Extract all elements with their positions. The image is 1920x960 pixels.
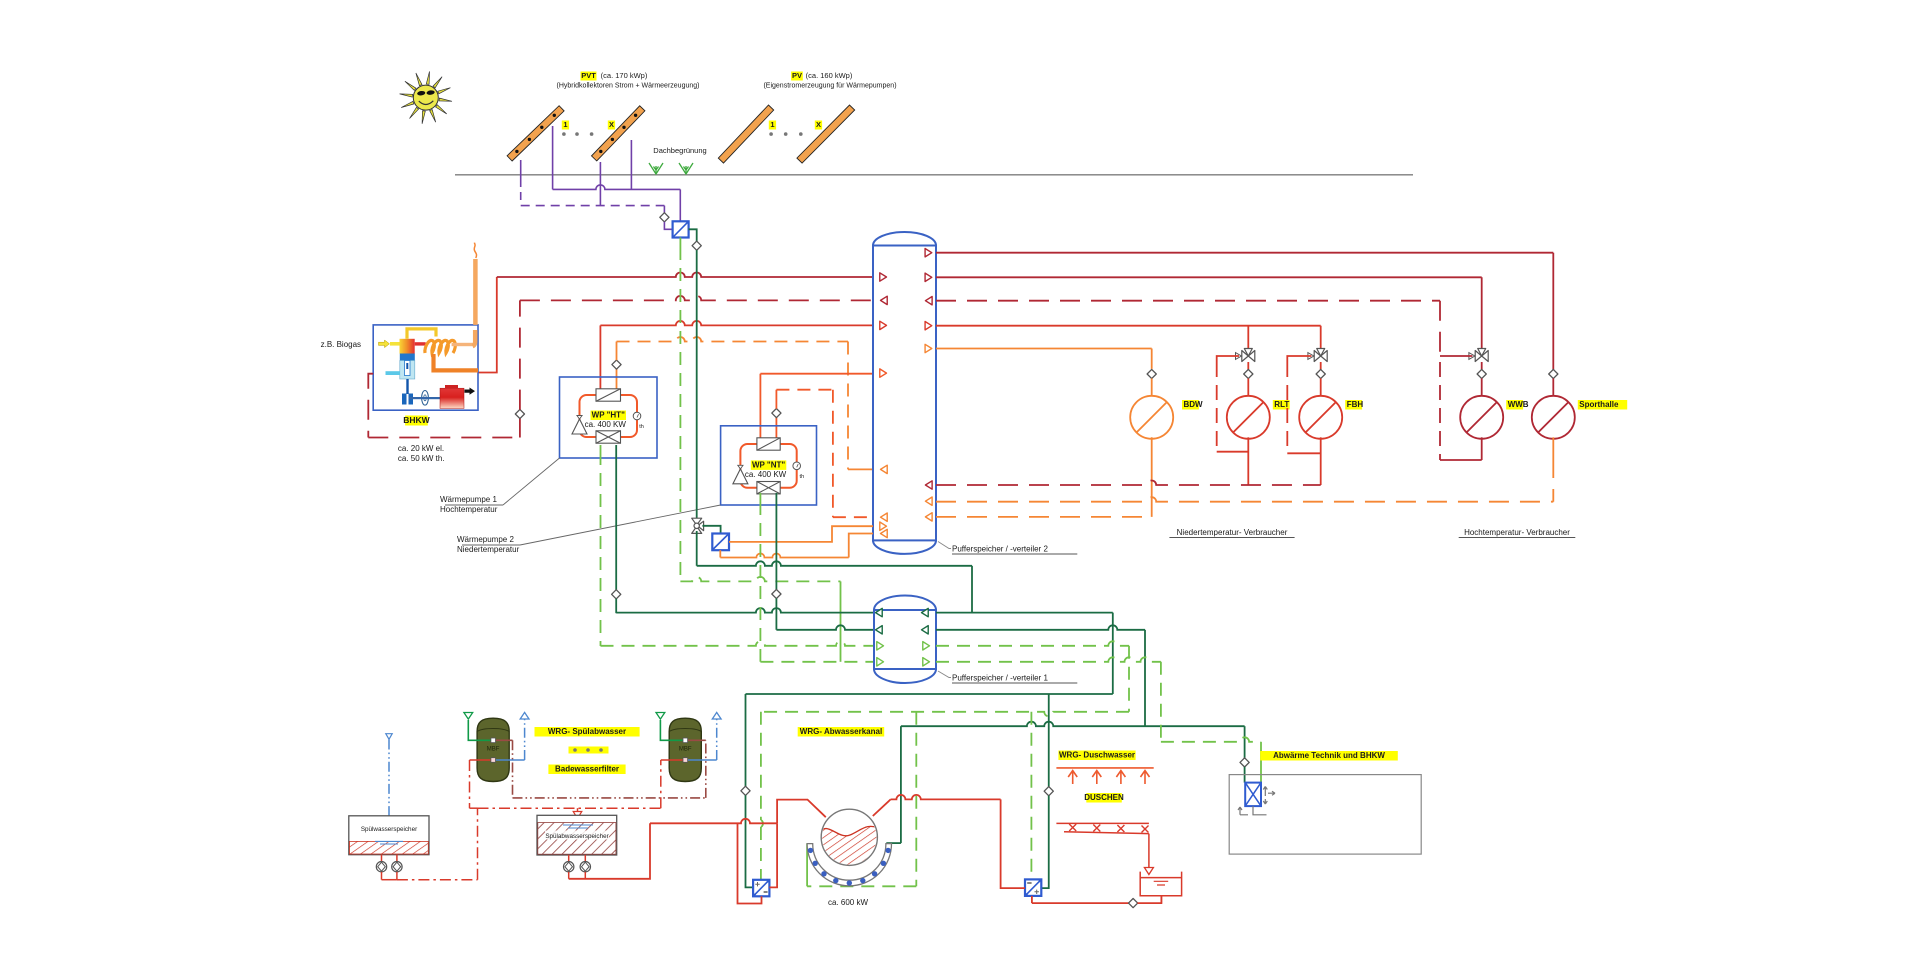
svg-text:X: X bbox=[609, 120, 614, 129]
consumer BDW bbox=[1147, 369, 1156, 378]
heat exchanger PVT (blue square) bbox=[673, 221, 689, 237]
wire consumer return dashed (dark red 300) bbox=[936, 300, 1440, 302]
wire light green 662 to tank1 bbox=[760, 661, 874, 663]
svg-text:Hochtemperatur- Verbraucher: Hochtemperatur- Verbraucher bbox=[1464, 528, 1570, 537]
svg-text:ca. 400 KW: ca. 400 KW bbox=[745, 470, 787, 479]
svg-text:PVT: PVT bbox=[581, 71, 596, 80]
sewer HX trough dots bbox=[808, 848, 813, 853]
wire consumer supply top (dark red 253) bbox=[936, 252, 1553, 254]
wire WP HT evaporator out dark green bbox=[615, 445, 617, 590]
svg-text:BDW: BDW bbox=[1184, 400, 1204, 409]
svg-text:ca. 20 kW el.: ca. 20 kW el. bbox=[398, 444, 444, 453]
svg-text:1: 1 bbox=[770, 120, 774, 129]
wire red drop to left HX bottom loop bbox=[738, 823, 762, 903]
wire light green 712 left bbox=[761, 712, 1129, 717]
BHKW box bbox=[373, 325, 478, 410]
BHKW flame squiggle bbox=[474, 243, 476, 258]
svg-text:RLT: RLT bbox=[1274, 400, 1289, 409]
drain drop to collection tank bbox=[1148, 834, 1150, 869]
wire dark green 726 to Abwaerme bbox=[901, 722, 1245, 727]
wire WP HT condenser supply (red) bbox=[599, 325, 601, 389]
svg-text:Spülabwasserspeicher: Spülabwasserspeicher bbox=[545, 833, 608, 840]
wire A down and left to sewer HX bbox=[1112, 613, 1114, 694]
svg-text:Wärmepumpe 1: Wärmepumpe 1 bbox=[440, 495, 497, 504]
tank Spuelwasserspeicher bbox=[349, 816, 429, 855]
wire dark green 565 under tank2 to riser bbox=[697, 561, 972, 566]
wire orange from HX bottom to tank bbox=[719, 550, 721, 557]
roof line bbox=[455, 174, 1413, 176]
wire light green branch to right waste HX top bbox=[1030, 712, 1032, 880]
spuelabwasser tank inlet arrow bbox=[577, 808, 579, 812]
svg-text:Abwärme Technik und BHKW: Abwärme Technik und BHKW bbox=[1273, 751, 1385, 760]
pointer Pufferspeicher 1 label bbox=[938, 671, 951, 678]
svg-text:Pufferspeicher / -verteiler 1: Pufferspeicher / -verteiler 1 bbox=[952, 674, 1048, 683]
svg-text:ca. 600 kW: ca. 600 kW bbox=[828, 898, 868, 907]
wire tank1 dark green B to right bbox=[936, 625, 1145, 630]
wire WP NT evaporator light green bbox=[759, 493, 761, 502]
dots between PV panels bbox=[769, 132, 773, 136]
svg-text:1: 1 bbox=[563, 120, 567, 129]
svg-text:Hochtemperatur: Hochtemperatur bbox=[440, 505, 498, 514]
svg-text:WWB: WWB bbox=[1508, 400, 1529, 409]
filter1 maroon port line bbox=[493, 739, 512, 741]
BHKW red supply riser bbox=[478, 277, 497, 373]
buffer tank Pufferspeicher 1 bbox=[874, 596, 936, 684]
svg-text:(Eigenstromerzeugung für Wärme: (Eigenstromerzeugung für Wärmepumpen) bbox=[763, 83, 896, 90]
label Abwaerme Technik und BHKW bbox=[1260, 751, 1398, 761]
wire branch to right waste HX bbox=[1048, 694, 1050, 787]
wire right HX bottom to drain tank bbox=[1031, 896, 1033, 903]
wire dark green 613 to tank1 bbox=[616, 608, 874, 613]
svg-text:WRG- Spülabwasser: WRG- Spülabwasser bbox=[548, 727, 626, 736]
svg-text:Wärmepumpe 2: Wärmepumpe 2 bbox=[457, 535, 514, 544]
svg-text:th: th bbox=[800, 474, 805, 480]
label PV heading bbox=[763, 71, 896, 90]
heat pump WP HT box bbox=[560, 377, 658, 458]
wire dark green 630 to tank1 bbox=[776, 625, 874, 630]
label PVT heading bbox=[557, 71, 700, 90]
wire tank1 dark green A to right bbox=[936, 612, 1113, 614]
tank outlet down bbox=[1160, 896, 1162, 903]
wire purple bus solid to HX bbox=[553, 185, 681, 190]
BHKW flue pipe bbox=[473, 259, 478, 325]
wire orange from HX right to tank bbox=[729, 526, 873, 542]
consumer WWB with valve bbox=[1475, 349, 1488, 362]
wire light green dashed to riser 840 bbox=[680, 577, 840, 582]
label WRG- Duschwasser bbox=[1058, 751, 1135, 761]
wire HT supply (dark red) BHKW to storage 2 bbox=[497, 273, 873, 278]
wire red dash-dot pool loop bbox=[382, 879, 397, 881]
wire PVT panel X bottom drop bbox=[599, 162, 601, 206]
Abwaerme HX xbox bbox=[1245, 783, 1261, 807]
svg-text:X: X bbox=[816, 120, 821, 129]
svg-text:WP "HT": WP "HT" bbox=[592, 411, 625, 420]
svg-text:BHKW: BHKW bbox=[403, 415, 430, 425]
BDW return to tank bbox=[1151, 437, 1153, 517]
wire purple dashed bus bbox=[521, 205, 665, 207]
svg-text:PV: PV bbox=[792, 71, 802, 80]
waste heat exchanger left bbox=[753, 880, 769, 897]
tank2 wall arrows bbox=[880, 273, 887, 281]
sun icon bbox=[400, 71, 452, 123]
consumer Sporthalle bbox=[1549, 369, 1558, 378]
svg-text:Badewasserfilter: Badewasserfilter bbox=[555, 765, 619, 774]
wire WP NT condenser supply (orange solid) to tank bbox=[759, 374, 761, 438]
PV panel 1 bbox=[718, 105, 773, 163]
svg-text:(ca. 170 kWp): (ca. 170 kWp) bbox=[601, 71, 648, 80]
wire dash-dot 808 to filter2 and tank bbox=[478, 807, 661, 809]
label WRG- Abwasserkanal bbox=[798, 727, 885, 737]
filter1 port squares bbox=[491, 738, 496, 743]
wire HT return dashed 501 to Sporthalle bbox=[936, 497, 1553, 502]
consumer RLT with valve bbox=[1242, 349, 1255, 362]
svg-text:th: th bbox=[639, 424, 644, 430]
svg-text:(Hybridkollektoren Strom + Wär: (Hybridkollektoren Strom + Wärmeerzeugun… bbox=[557, 83, 700, 90]
svg-text:Spülwasserspeicher: Spülwasserspeicher bbox=[361, 826, 417, 833]
Abwaerme technic room box bbox=[1229, 775, 1421, 855]
mixing valve 4way bbox=[692, 518, 704, 533]
dots between PVT panels bbox=[562, 132, 566, 136]
svg-text:Pufferspeicher / -verteiler 2: Pufferspeicher / -verteiler 2 bbox=[952, 545, 1048, 554]
wire WP NT condenser return dashed bbox=[775, 418, 777, 438]
wire light green trough loop bbox=[915, 712, 917, 887]
svg-text:MBF: MBF bbox=[487, 747, 500, 753]
svg-text:Niedertemperatur- Verbraucher: Niedertemperatur- Verbraucher bbox=[1177, 528, 1288, 537]
svg-text:FBH: FBH bbox=[1347, 400, 1364, 409]
svg-text:(ca. 160 kWp): (ca. 160 kWp) bbox=[806, 71, 853, 80]
pointer Pufferspeicher 2 label bbox=[938, 542, 951, 549]
buffer tank Pufferspeicher 2 bbox=[873, 232, 936, 554]
pumps under Spuelabwasserspeicher bbox=[568, 855, 570, 861]
filter1 red port line bbox=[470, 759, 494, 761]
wire red spuelabwasser feed 823 bbox=[650, 819, 777, 824]
wire consumer supply orange 348 to BDW bbox=[936, 348, 1152, 350]
wire A drop to waste HX left bbox=[745, 694, 747, 786]
PVT panel 1 bbox=[507, 106, 564, 161]
waste heat exchanger right bbox=[1025, 879, 1041, 896]
label X (PVT) bbox=[608, 121, 615, 130]
roof greenery plants bbox=[649, 163, 663, 174]
BHKW return dashed loop bbox=[368, 374, 373, 438]
wire PVT HX glycol supply (light green) bbox=[679, 238, 681, 248]
label X (PV) bbox=[815, 121, 822, 130]
wire WP NT evaporator out dark green bbox=[775, 493, 777, 590]
shower drain line with x marks bbox=[1056, 822, 1149, 824]
svg-text:WRG- Duschwasser: WRG- Duschwasser bbox=[1059, 751, 1135, 760]
svg-text:WRG- Abwasserkanal: WRG- Abwasserkanal bbox=[800, 727, 882, 736]
wire light green drop to left waste HX top bbox=[760, 712, 762, 820]
wire tank1 light green C bbox=[936, 641, 1129, 646]
filter1 blue outlet bbox=[493, 759, 524, 761]
shower collection tank bbox=[1140, 872, 1181, 896]
label BHKW bbox=[405, 416, 428, 426]
wire red to sewer loop riser bbox=[569, 823, 650, 879]
svg-text:MBF: MBF bbox=[679, 747, 692, 753]
BHKW engine internals bbox=[379, 329, 479, 409]
svg-text:Niedertemperatur: Niedertemperatur bbox=[457, 545, 520, 554]
svg-text:Sporthalle: Sporthalle bbox=[1579, 400, 1619, 409]
filter2 red port line bbox=[661, 759, 686, 761]
label 1 (PVT) bbox=[562, 121, 569, 130]
filter1 green backwash port bbox=[468, 720, 493, 740]
heat pump WP NT box bbox=[721, 426, 817, 505]
pump purple circuit bbox=[663, 206, 665, 213]
yellow dots bar bbox=[569, 747, 609, 754]
wire red left HX right to sewer inlet bbox=[769, 823, 777, 887]
wire WP HT evaporator in light green bbox=[600, 445, 602, 452]
wire light green 646 to tank1 bbox=[601, 641, 875, 646]
wire sewer outlet to right HX bbox=[873, 799, 891, 816]
maroon link line bbox=[513, 797, 706, 799]
wire consumer supply (dark red 277) bbox=[936, 276, 1482, 278]
label DUSCHEN bbox=[1086, 793, 1122, 803]
PVT panel X bbox=[592, 106, 645, 161]
label WRG- Spuelabwasser bbox=[535, 727, 640, 737]
filter2 blue outlet bbox=[685, 759, 716, 761]
wire WP HT condenser return dashed (orange) bbox=[616, 369, 618, 389]
pointer Waermepumpe 1 bbox=[503, 458, 560, 505]
filter MBF 1 bbox=[477, 718, 509, 781]
svg-text:ca. 50 kW th.: ca. 50 kW th. bbox=[398, 454, 445, 463]
wire trough to dark green riser bbox=[886, 842, 901, 844]
consumer FBH with valve bbox=[1314, 349, 1327, 362]
label 1 (PV) bbox=[769, 121, 776, 130]
Abwaerme air arrows bbox=[1238, 787, 1275, 815]
wire valve down to 565 line bbox=[696, 531, 698, 566]
wire PVT panel X top drop bbox=[630, 140, 632, 189]
tank Spuelabwasserspeicher bbox=[537, 815, 617, 855]
wire PVT HX glycol return (dark green) bbox=[689, 229, 697, 241]
wire NT return dashed 485 bbox=[936, 481, 1321, 486]
wire orange dashed riser to tank arrow 469 bbox=[847, 342, 849, 470]
svg-text:WP "NT": WP "NT" bbox=[752, 460, 785, 469]
sewer HX circle bbox=[821, 809, 877, 865]
PV panel X bbox=[797, 105, 855, 163]
wire PVT string 1 dashed feed bbox=[520, 160, 522, 187]
wire PVT string 1 return (purple solid) bbox=[552, 126, 554, 189]
filter2 port squares bbox=[683, 738, 688, 743]
wire consumer supply red 326 to RLT FBH bbox=[936, 325, 1321, 327]
pumps under Spuelwasserspeicher bbox=[381, 855, 383, 862]
wire dash-dot junction 808 bbox=[470, 807, 478, 809]
filter MBF 2 bbox=[669, 718, 701, 781]
wire HT return dashed to BHKW bbox=[520, 296, 873, 301]
wire light green 742 to Abwaerme HX bbox=[1161, 737, 1261, 742]
heat exchanger glycol (blue) bbox=[712, 534, 729, 551]
svg-text:z.B. Biogas: z.B. Biogas bbox=[321, 340, 361, 349]
fresh water dashed blue with triangle bbox=[386, 734, 392, 740]
filter2 green port bbox=[660, 720, 685, 740]
svg-text:Dachbegrünung: Dachbegrünung bbox=[653, 146, 706, 155]
wire BDW return dashed 517 bbox=[936, 516, 1152, 518]
tank1 inner arrows bbox=[876, 608, 883, 616]
label Badewasserfilter bbox=[548, 765, 625, 775]
shower supply line and arrows bbox=[1056, 767, 1153, 769]
svg-text:DUSCHEN: DUSCHEN bbox=[1084, 793, 1124, 802]
sewer HX trough bbox=[807, 844, 891, 886]
pointer Waermepumpe 2 bbox=[520, 505, 721, 545]
wire tank1 light green D bbox=[936, 657, 1161, 662]
svg-text:ca. 400 KW: ca. 400 KW bbox=[585, 420, 627, 429]
wire valve to HX blue bbox=[702, 526, 720, 534]
